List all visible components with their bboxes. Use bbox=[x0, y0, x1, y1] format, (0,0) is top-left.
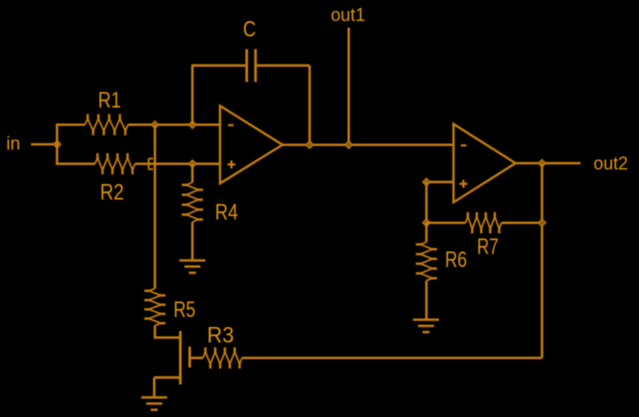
svg-text:R5: R5 bbox=[174, 297, 196, 322]
wire: input lead bbox=[31, 143, 57, 145]
svg-text:out2: out2 bbox=[594, 152, 629, 173]
wire: opamp2 output bbox=[516, 162, 581, 164]
wire: R7 right lead bbox=[502, 222, 543, 224]
svg-text:R1: R1 bbox=[98, 88, 121, 113]
svg-text:C: C bbox=[243, 16, 256, 41]
wire: R2 left lead bbox=[56, 163, 95, 165]
wire: cap feedback left vertical bbox=[191, 64, 193, 124]
svg-text:R3: R3 bbox=[207, 322, 234, 347]
capacitor C plates bbox=[245, 49, 248, 82]
op-amp U2 bbox=[454, 124, 516, 202]
svg-text:out1: out1 bbox=[331, 4, 366, 25]
wire: gate lead bbox=[191, 357, 203, 359]
wire: R6 column top bbox=[425, 182, 427, 223]
op-amp U1 plus label bbox=[227, 163, 235, 165]
junction inverting input node bbox=[189, 121, 197, 129]
wire: cap right lead bbox=[257, 64, 310, 66]
wire: R5 column bbox=[154, 125, 156, 289]
wire: R2 to opamp non-inverting input bbox=[135, 163, 220, 165]
junction R7 right node bbox=[538, 219, 546, 227]
wire: R7 left lead bbox=[426, 222, 465, 224]
resistor R2 bbox=[95, 158, 135, 170]
resistor R4 bbox=[191, 164, 193, 183]
resistor R3 bbox=[203, 352, 242, 364]
resistor R6 bbox=[425, 223, 427, 242]
wire: source wire bbox=[154, 376, 180, 378]
svg-text:R6: R6 bbox=[445, 247, 467, 272]
op-amp U2 minus label bbox=[461, 144, 467, 146]
ground under transistor bbox=[141, 396, 167, 398]
junction R6/R7 node bbox=[423, 219, 431, 227]
resistor R1 bbox=[85, 119, 128, 131]
wire: opamp1 output to opamp2 bbox=[283, 144, 454, 146]
resistor R5 bbox=[149, 289, 161, 326]
op-amp U2 plus label bbox=[459, 183, 467, 185]
wire: drain wire to transistor bbox=[155, 336, 180, 338]
ground under R6 bbox=[413, 319, 439, 321]
junction out2 feedback node bbox=[538, 159, 546, 167]
op-amp U1 minus label bbox=[228, 124, 233, 126]
svg-text:R2: R2 bbox=[100, 180, 124, 205]
wire: R1 to opamp inverting input bbox=[128, 123, 220, 125]
transistor Q1 channel bar bbox=[179, 331, 182, 385]
wire: feedback vertical from out2 bbox=[541, 163, 543, 358]
junction out1 node bbox=[345, 141, 353, 149]
svg-text:R7: R7 bbox=[477, 234, 499, 259]
junction opamp2 non-inverting node bbox=[423, 178, 431, 186]
svg-text:in: in bbox=[6, 132, 20, 153]
resistor R7 bbox=[466, 217, 502, 229]
wire: feedback bottom row bbox=[242, 357, 542, 359]
junction input node bbox=[53, 140, 61, 148]
junction cap feedback node bbox=[306, 141, 314, 149]
svg-text:R4: R4 bbox=[215, 199, 238, 224]
wire: R1 left lead bbox=[56, 123, 85, 125]
junction non-inverting input node bbox=[189, 160, 197, 168]
wire: out1 vertical bbox=[348, 28, 350, 145]
wire hop bracket at R5 column crossing bbox=[148, 159, 150, 170]
ground under R4 bbox=[179, 259, 205, 261]
wire: input vertical split bbox=[56, 124, 58, 166]
op-amp U1 bbox=[220, 106, 283, 184]
transistor Q1 gate bar bbox=[188, 347, 191, 368]
wire: cap left lead bbox=[192, 64, 245, 66]
wire: opamp2 non-inverting input bbox=[426, 181, 453, 183]
wire: cap feedback right vertical bbox=[308, 66, 310, 145]
junction R1/R5 node bbox=[151, 121, 159, 129]
